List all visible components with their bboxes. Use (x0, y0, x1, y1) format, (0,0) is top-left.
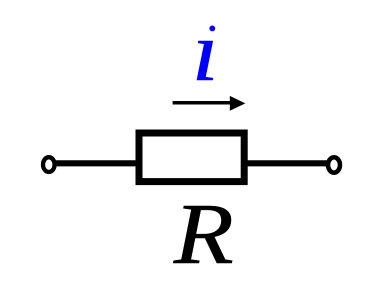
wire right segment (244, 160, 331, 166)
current arrow (173, 96, 246, 111)
right terminal (328, 157, 340, 172)
resistor R (139, 133, 244, 182)
svg-text:R: R (173, 186, 234, 283)
left terminal (43, 157, 55, 172)
label i (current) (192, 4, 219, 99)
wire left segment (52, 160, 140, 166)
svg-text:ı: ı (192, 4, 219, 99)
